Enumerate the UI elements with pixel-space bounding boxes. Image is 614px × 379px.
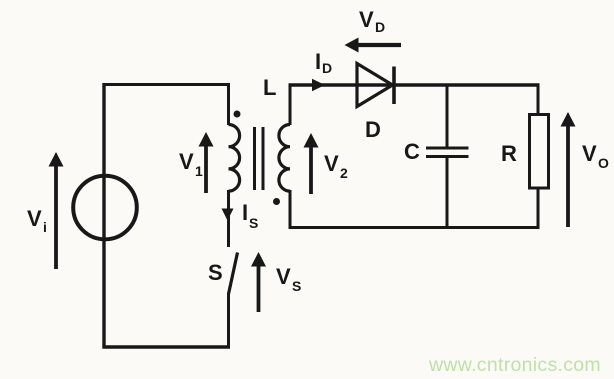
arrow ID head bbox=[312, 79, 325, 91]
wire secondary top vertical bbox=[289, 85, 292, 126]
arrow Is head bbox=[222, 209, 234, 221]
transformer secondary winding bbox=[279, 125, 290, 192]
dot secondary polarity bbox=[273, 198, 280, 205]
svg-text:I: I bbox=[242, 200, 248, 225]
svg-text:V: V bbox=[324, 151, 339, 176]
wire secondary bottom vertical bbox=[289, 190, 292, 229]
resistor R bbox=[530, 115, 549, 189]
wire capacitor top vertical bbox=[446, 85, 449, 148]
svg-text:i: i bbox=[43, 219, 47, 235]
wire bottom horizontal (output) bbox=[289, 226, 540, 229]
wire top horizontal (output) bbox=[289, 83, 540, 87]
svg-text:V: V bbox=[582, 141, 597, 166]
transformer primary winding bbox=[229, 125, 240, 192]
arrow Vo bbox=[561, 112, 576, 227]
svg-text:S: S bbox=[292, 278, 301, 294]
wire top-left horizontal bbox=[103, 83, 231, 86]
diode D bbox=[357, 64, 394, 107]
arrow VD bbox=[345, 38, 402, 53]
wire capacitor bottom vertical bbox=[446, 157, 449, 229]
svg-text:I: I bbox=[315, 49, 321, 74]
arrow V1 bbox=[199, 132, 214, 193]
svg-text:1: 1 bbox=[195, 163, 203, 179]
svg-text:www.cntronics.com: www.cntronics.com bbox=[428, 354, 601, 376]
switch S blade bbox=[229, 253, 238, 295]
wire left vertical bbox=[102, 83, 105, 349]
svg-text:V: V bbox=[276, 264, 291, 289]
wire resistor top vertical bbox=[537, 85, 540, 115]
svg-text:V: V bbox=[359, 7, 374, 32]
source Vi circle bbox=[73, 176, 137, 240]
wire primary lower vertical bbox=[227, 190, 230, 247]
transformer core bbox=[253, 127, 256, 190]
svg-text:D: D bbox=[365, 117, 381, 142]
dot primary polarity bbox=[234, 111, 241, 118]
svg-text:S: S bbox=[208, 260, 223, 285]
wire resistor bottom vertical bbox=[537, 188, 540, 229]
arrow V2 bbox=[304, 133, 319, 194]
svg-text:2: 2 bbox=[340, 165, 348, 181]
svg-text:C: C bbox=[404, 139, 420, 164]
svg-text:D: D bbox=[322, 60, 332, 76]
svg-text:L: L bbox=[263, 75, 276, 100]
wire primary top vertical bbox=[227, 85, 230, 126]
arrow Vi bbox=[49, 152, 64, 269]
svg-text:S: S bbox=[249, 215, 258, 231]
svg-text:O: O bbox=[598, 155, 609, 171]
arrow Vs bbox=[251, 252, 266, 312]
svg-text:R: R bbox=[501, 141, 517, 166]
svg-text:V: V bbox=[179, 149, 194, 174]
capacitor C bbox=[426, 148, 469, 157]
wire below switch vertical bbox=[227, 293, 230, 347]
svg-text:D: D bbox=[375, 19, 385, 35]
wire bottom-left horizontal bbox=[103, 345, 231, 349]
svg-text:V: V bbox=[27, 206, 42, 231]
